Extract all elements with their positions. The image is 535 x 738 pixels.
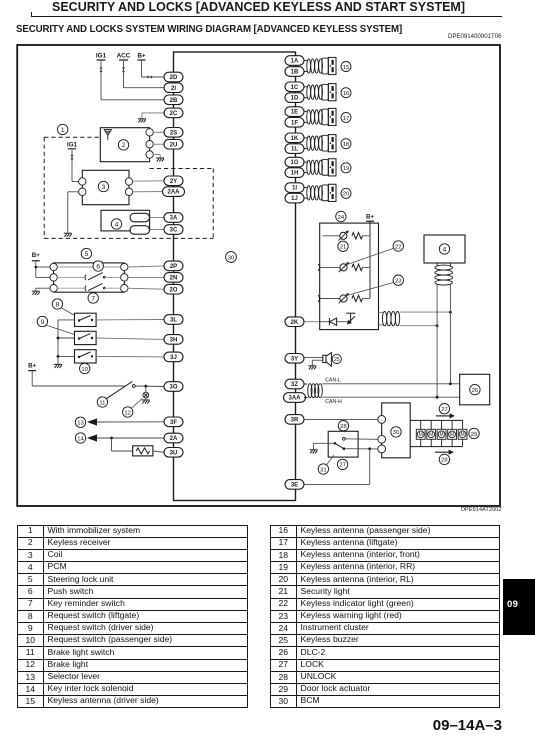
- pin 2AA: [163, 187, 185, 197]
- wire cluster CAN upper: [400, 311, 451, 313]
- wire coil unit to ground: [68, 191, 80, 193]
- svg-text:1: 1: [61, 127, 65, 134]
- keyless antenna unit 17: [304, 108, 337, 125]
- ref 12: [123, 407, 133, 417]
- svg-text:6: 6: [96, 263, 100, 270]
- wire resistor to B+ bus row3: [363, 298, 371, 300]
- pin 3C: [164, 225, 183, 235]
- svg-text:13: 13: [77, 421, 84, 427]
- ref 24: [336, 211, 346, 221]
- unlock direction arrow: [435, 450, 454, 455]
- ref 11: [97, 397, 107, 407]
- svg-text:2I: 2I: [171, 86, 176, 92]
- wire junction to 3E: [369, 449, 371, 485]
- ref 4 right: [439, 244, 449, 254]
- ground at receiver: [156, 158, 164, 162]
- svg-text:31: 31: [320, 467, 327, 473]
- pin 3L: [164, 315, 183, 325]
- wire U5 to 2P: [127, 266, 164, 267]
- leader 22: [349, 248, 394, 264]
- ground key cylinder: [310, 450, 318, 454]
- pin 2B: [164, 95, 183, 105]
- svg-text:5: 5: [85, 251, 89, 258]
- key cylinder switch contacts: [334, 442, 337, 445]
- connector chevrons IG1: [99, 68, 102, 74]
- junction CAN lower: [436, 324, 439, 327]
- wire PCM oval to 3C: [150, 229, 165, 231]
- ref 31: [318, 464, 328, 474]
- wire row1 inside U5: [57, 266, 120, 268]
- svg-text:9: 9: [41, 319, 45, 326]
- keyless warning lamp 23: [339, 293, 349, 303]
- B+ feed cluster: [366, 213, 374, 221]
- wire steering lock pin3 to ground: [36, 287, 51, 289]
- ref 6: [93, 261, 103, 271]
- pin 1A: [285, 56, 304, 66]
- svg-text:M: M: [450, 432, 454, 438]
- svg-text:2: 2: [122, 142, 126, 149]
- junction SW9: [57, 337, 60, 340]
- B+ feed brake: [28, 362, 36, 370]
- svg-text:CAN-H: CAN-H: [325, 399, 342, 405]
- wire 3R to lock module: [304, 418, 378, 420]
- pin 2Y: [164, 176, 183, 186]
- junction CAN-H: [436, 396, 439, 399]
- svg-text:1A: 1A: [291, 59, 299, 65]
- ref 28 actuator: [439, 454, 449, 464]
- svg-text:3AA: 3AA: [288, 396, 301, 402]
- ground buzzer: [308, 366, 316, 370]
- pin 3H: [164, 335, 183, 345]
- svg-text:2U: 2U: [170, 142, 178, 148]
- ref 4 in immobilizer box: [111, 219, 121, 229]
- key reminder switch SW7: [57, 287, 85, 289]
- wire IG1 drop: [100, 60, 102, 100]
- keyless antenna unit 18: [304, 135, 337, 152]
- leader 9: [46, 325, 75, 334]
- svg-text:3H: 3H: [170, 338, 178, 344]
- wire PCM CAN drop left: [436, 285, 438, 398]
- ref 7: [88, 293, 98, 303]
- door lock module box: [382, 403, 411, 458]
- pin 2D: [164, 72, 183, 82]
- svg-text:1D: 1D: [291, 96, 299, 102]
- svg-text:IG1: IG1: [96, 53, 107, 60]
- svg-text:4: 4: [115, 221, 119, 228]
- svg-text:7: 7: [91, 295, 95, 302]
- ref 2: [118, 140, 128, 150]
- pin 2I: [164, 83, 183, 93]
- dashed box item 1 with immobilizer system: [44, 137, 213, 238]
- junction brake light: [144, 385, 147, 388]
- leader 12: [131, 399, 142, 409]
- junction lock wire: [368, 447, 371, 450]
- row3 edge hook: [318, 295, 320, 302]
- keyless receiver box U2: [100, 128, 149, 162]
- diode D1: [329, 318, 336, 325]
- junction SW10: [57, 355, 60, 358]
- svg-text:CAN-L: CAN-L: [325, 377, 341, 383]
- svg-text:2D: 2D: [170, 75, 178, 81]
- pin 1G: [285, 157, 304, 167]
- svg-text:27: 27: [441, 407, 448, 413]
- ref 13: [75, 417, 85, 427]
- svg-text:22: 22: [395, 244, 402, 250]
- svg-text:B+: B+: [366, 213, 374, 220]
- pin 2C: [164, 108, 183, 118]
- twisted pair 3Z 3AA: [304, 384, 322, 398]
- keyless indicator lamp 22: [339, 262, 349, 272]
- ref 26: [470, 384, 480, 394]
- ref 28 switch: [338, 421, 348, 431]
- B+ feed steering lock: [32, 252, 40, 261]
- wire B+ to steering lock: [35, 261, 37, 278]
- motor bus bottom: [410, 446, 462, 448]
- cluster CAN stubs: [379, 311, 384, 313]
- brake light switch SW11 blade and leader: [106, 382, 133, 400]
- ref 9: [37, 316, 47, 326]
- junction CAN-L: [449, 382, 452, 385]
- svg-text:11: 11: [99, 400, 105, 406]
- svg-text:1F: 1F: [291, 120, 298, 126]
- ground at 2C wire: [138, 119, 146, 123]
- wire U5 to 2O: [127, 288, 164, 289]
- svg-text:ACC: ACC: [117, 53, 131, 60]
- keyless antenna unit 20: [304, 184, 337, 201]
- wire switch unlock contact: [345, 438, 378, 441]
- receiver antenna symbol: [104, 130, 111, 140]
- svg-text:3R: 3R: [291, 418, 299, 424]
- lock direction arrow: [436, 413, 455, 418]
- svg-text:26: 26: [472, 388, 479, 394]
- pin 1F: [285, 118, 304, 128]
- wire cluster CAN lower: [400, 325, 437, 327]
- pin 3E: [285, 480, 304, 490]
- svg-text:12: 12: [124, 410, 131, 416]
- ref 30 module: [391, 427, 401, 437]
- push switch SW6: [57, 276, 85, 278]
- driver transistor symbol: [346, 313, 355, 323]
- pin 3O: [164, 382, 183, 392]
- keyless indicator row wire: [320, 266, 340, 268]
- wire U5 to 2N: [127, 276, 164, 278]
- ref 5: [81, 248, 91, 258]
- resistor security light: [352, 233, 363, 239]
- connector chevrons B+: [148, 75, 154, 78]
- svg-text:19: 19: [343, 166, 350, 172]
- instrument cluster box U24: [320, 223, 379, 330]
- svg-text:B+: B+: [32, 252, 40, 259]
- security light lamp 21: [339, 231, 349, 241]
- wire CAN-L: [322, 383, 459, 385]
- pin 2P: [164, 261, 183, 271]
- ref 14: [75, 433, 85, 443]
- pin 3AA: [284, 393, 306, 403]
- svg-text:2C: 2C: [170, 111, 178, 117]
- ground request switches: [54, 364, 62, 368]
- wire IG1 to coil unit: [71, 149, 73, 182]
- svg-text:3: 3: [102, 184, 106, 191]
- pin 1E: [285, 107, 304, 117]
- ref 22: [393, 241, 403, 251]
- svg-text:2O: 2O: [169, 287, 177, 293]
- SW11 contact: [132, 385, 135, 388]
- wire SW9 to 3H: [96, 338, 164, 339]
- wire diode to driver: [337, 321, 349, 323]
- door lock motor M4: [451, 420, 453, 429]
- svg-text:M: M: [429, 432, 433, 438]
- wire SW11 to 3O: [135, 385, 164, 388]
- svg-text:M: M: [461, 432, 465, 438]
- pin 3J: [164, 352, 183, 362]
- wire 2C to ground: [142, 112, 164, 114]
- pin 1L: [285, 144, 304, 154]
- pin 2U: [164, 139, 183, 149]
- svg-text:10: 10: [81, 367, 88, 373]
- ref 27 switch: [337, 459, 347, 469]
- svg-text:27: 27: [339, 463, 346, 469]
- svg-text:18: 18: [343, 142, 350, 148]
- svg-text:3L: 3L: [170, 318, 177, 324]
- pin 2N: [164, 273, 183, 283]
- ref 25: [332, 354, 341, 363]
- svg-text:21: 21: [340, 245, 347, 251]
- svg-text:3U: 3U: [170, 450, 178, 456]
- wire receiver to 2U: [153, 143, 164, 145]
- receiver pin circles: [146, 129, 153, 159]
- svg-text:1H: 1H: [291, 171, 299, 177]
- svg-text:3O: 3O: [169, 385, 177, 391]
- svg-text:2B: 2B: [170, 98, 178, 104]
- arrow selector lever: [87, 418, 97, 425]
- keyless antenna unit 16: [304, 84, 337, 101]
- ground brake light: [142, 400, 150, 404]
- door key cylinder switch box 31: [328, 431, 358, 457]
- wire coil to 2AA: [132, 191, 162, 193]
- svg-text:2Y: 2Y: [170, 179, 177, 185]
- wire CAN-H: [322, 396, 459, 398]
- wire PCM oval to 3A: [150, 217, 165, 219]
- resistor warning: [352, 295, 363, 301]
- svg-text:2AA: 2AA: [167, 190, 180, 196]
- svg-text:B+: B+: [28, 362, 36, 369]
- wire B+ to brake switch: [31, 371, 33, 386]
- pin 1C: [285, 82, 304, 92]
- pin 3Z: [285, 379, 304, 389]
- svg-text:23: 23: [395, 279, 402, 285]
- wire resistor to B+ bus row1: [363, 235, 371, 237]
- leader 23: [349, 282, 394, 295]
- svg-text:B+: B+: [137, 53, 146, 60]
- svg-text:M: M: [419, 432, 423, 438]
- keyless antenna unit 15: [304, 57, 337, 74]
- svg-text:2S: 2S: [170, 130, 177, 136]
- junction B+ steering: [35, 266, 38, 269]
- svg-text:2K: 2K: [291, 320, 299, 326]
- BCM ref 30: [226, 252, 237, 263]
- pin 1I: [285, 183, 304, 193]
- ref 10: [80, 363, 90, 373]
- resistor indicator: [352, 264, 363, 270]
- PCM transponder ovals: [130, 213, 150, 234]
- security light row wire: [323, 235, 340, 237]
- pin 3F: [164, 417, 183, 427]
- request switch liftgate SW8: [75, 313, 97, 326]
- ref 3: [98, 181, 108, 191]
- wire arrow to 3F: [97, 421, 164, 423]
- wire SW10 to 3J: [96, 355, 164, 358]
- PCM box right U4b: [424, 235, 465, 263]
- wire 3Y to buzzer: [304, 357, 323, 359]
- svg-text:3C: 3C: [170, 228, 178, 234]
- PCM coil stack: [435, 263, 453, 285]
- request switch driver SW9: [75, 331, 97, 344]
- request switch passenger SW10: [75, 350, 97, 363]
- door lock motor M5: [462, 420, 464, 429]
- door lock motor M3: [441, 420, 443, 429]
- svg-text:1J: 1J: [291, 196, 298, 202]
- coil box pin circles: [79, 178, 133, 196]
- svg-text:25: 25: [334, 357, 340, 363]
- leader 8: [61, 308, 75, 316]
- svg-text:1B: 1B: [291, 70, 299, 76]
- door lock motor M1: [420, 420, 422, 429]
- wire B+ cluster bus: [369, 221, 371, 298]
- pin 2K: [285, 317, 304, 327]
- leader 31: [326, 455, 334, 465]
- wire switch common to ground: [314, 442, 335, 444]
- svg-text:3A: 3A: [170, 216, 178, 222]
- ref 1: [58, 124, 68, 134]
- svg-text:2A: 2A: [170, 436, 178, 442]
- wire resistor to B+ bus row2: [363, 266, 371, 268]
- wire to brake light: [145, 386, 147, 392]
- svg-text:28: 28: [340, 424, 347, 430]
- pin 1J: [285, 193, 304, 203]
- ref 29: [469, 428, 479, 438]
- figure border: [17, 45, 500, 506]
- wire switch lock contact: [345, 448, 378, 450]
- svg-text:IG1: IG1: [67, 141, 78, 148]
- svg-text:24: 24: [338, 215, 345, 221]
- key inter lock solenoid resistor: [133, 446, 153, 456]
- pin 3A: [164, 213, 183, 223]
- wire SW10 common: [58, 355, 75, 357]
- pin 3U: [164, 448, 183, 458]
- wire to solenoid resistor: [111, 438, 113, 451]
- svg-text:3Y: 3Y: [291, 356, 298, 362]
- wire 2K to cluster: [304, 321, 320, 323]
- svg-text:16: 16: [343, 91, 350, 97]
- ref 23: [393, 275, 403, 285]
- PCM box U4: [101, 210, 150, 231]
- keyless antenna unit 19: [304, 159, 337, 176]
- steering lock unit box U5: [54, 263, 125, 292]
- row2 edge hook: [318, 264, 320, 271]
- svg-text:30: 30: [228, 255, 235, 261]
- svg-text:17: 17: [343, 116, 350, 122]
- pin 1K: [285, 133, 304, 143]
- keyless buzzer speaker: [323, 353, 332, 367]
- leader 10: [84, 362, 86, 365]
- wire PCM CAN drop right: [449, 285, 451, 384]
- connector chevrons ACC: [122, 68, 125, 74]
- svg-text:3Z: 3Z: [291, 382, 298, 388]
- motor bus top: [410, 419, 462, 421]
- svg-text:1L: 1L: [291, 147, 298, 153]
- svg-text:1C: 1C: [291, 85, 299, 91]
- pin 3Y: [285, 354, 304, 364]
- svg-text:3J: 3J: [170, 355, 177, 361]
- svg-text:4: 4: [443, 246, 447, 253]
- wire ACC drop: [123, 60, 125, 88]
- pin 2A: [164, 433, 183, 443]
- wire coil to 2Y: [132, 180, 164, 182]
- ref 8: [52, 299, 62, 309]
- wire 2K row inside cluster: [320, 321, 329, 323]
- brake light lamp 12: [143, 392, 149, 398]
- wire SW8 to 3L: [96, 319, 164, 321]
- svg-text:1I: 1I: [292, 186, 297, 192]
- svg-text:2N: 2N: [170, 276, 178, 282]
- svg-text:3E: 3E: [291, 483, 298, 489]
- arrow key interlock: [87, 434, 97, 441]
- wire receiver to 2S: [153, 131, 164, 133]
- wire solenoid to 3U: [153, 451, 164, 452]
- wire lamp to ground: [145, 398, 147, 400]
- pin 1B: [285, 67, 304, 77]
- svg-text:2P: 2P: [170, 264, 177, 270]
- BCM block outline (item 30): [174, 52, 296, 501]
- svg-text:29: 29: [471, 432, 478, 438]
- module pin circles: [378, 416, 386, 453]
- steering lock pin circles: [50, 263, 128, 292]
- connector chevrons IG1 inner: [70, 155, 73, 161]
- svg-text:14: 14: [77, 436, 84, 442]
- keyless warning row wire: [320, 298, 340, 300]
- pin 1H: [285, 168, 304, 178]
- pin 2S: [164, 128, 183, 138]
- ground at steering lock: [32, 291, 40, 295]
- svg-text:1E: 1E: [291, 110, 298, 116]
- pin 3R: [285, 415, 304, 425]
- wire arrow to 2A: [97, 437, 164, 439]
- coil box U3: [82, 170, 129, 204]
- svg-text:1K: 1K: [291, 136, 299, 142]
- cluster twisted pair coil: [382, 311, 399, 325]
- wire SW9 common: [58, 337, 75, 339]
- svg-text:30: 30: [393, 430, 400, 436]
- pin 1D: [285, 93, 304, 103]
- svg-text:M: M: [440, 432, 444, 438]
- ref 21: [338, 241, 348, 251]
- svg-text:20: 20: [343, 192, 350, 198]
- junction key interlock: [110, 437, 113, 440]
- wire B+ drop: [141, 60, 143, 77]
- svg-text:3F: 3F: [170, 420, 177, 426]
- DLC-2 box 26: [460, 374, 490, 405]
- svg-text:15: 15: [343, 65, 350, 71]
- svg-text:28: 28: [441, 458, 448, 464]
- wire SW8 common: [58, 319, 75, 321]
- wire receiver pin3 to ground: [153, 154, 161, 156]
- svg-text:8: 8: [56, 301, 60, 308]
- ref 27 actuator: [439, 404, 449, 414]
- door lock motor M2: [430, 420, 432, 429]
- pin 2O: [164, 284, 183, 294]
- svg-text:1G: 1G: [290, 160, 298, 166]
- junction CAN upper: [449, 311, 452, 314]
